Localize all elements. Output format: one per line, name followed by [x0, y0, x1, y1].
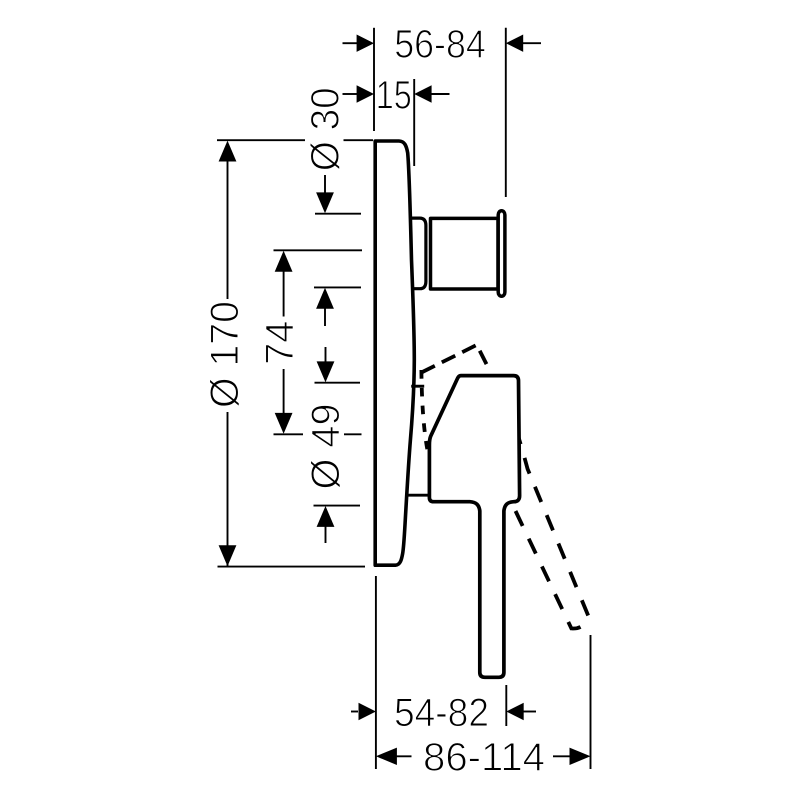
- dim Ø30 bottom extension line: [314, 286, 361, 288]
- svg-text:86-114: 86-114: [423, 736, 545, 780]
- lever handle alternate position (dashed) shaft outline: [512, 429, 588, 629]
- stem cylinder: [431, 218, 499, 289]
- dim 15 left arrow: [343, 93, 359, 95]
- dim Ø49 arrows: [325, 347, 327, 366]
- dim 74 top extension line: [274, 249, 363, 251]
- dim 86-114 right extension line: [590, 635, 592, 769]
- lever handle alternate position (dashed) top edges: [421, 345, 489, 373]
- lever handle with shaft (solid): [429, 376, 519, 678]
- dim Ø170 dimension line with arrows: [219, 141, 237, 162]
- dim Ø30 top extension line: [315, 213, 361, 215]
- dim 56-84 left extension line: [373, 28, 375, 131]
- svg-text:74: 74: [258, 321, 302, 365]
- svg-text:Ø 170: Ø 170: [203, 301, 247, 408]
- dim 56-84 right extension line: [505, 28, 507, 197]
- escutcheon plate (side view): [375, 141, 414, 565]
- dim 56-84 right arrow: [522, 42, 541, 44]
- dim 15 right arrow: [430, 93, 450, 95]
- svg-text:56-84: 56-84: [394, 23, 486, 67]
- dim Ø170 top extension line: [217, 139, 305, 141]
- dim Ø170 bottom extension line: [218, 566, 366, 568]
- svg-text:Ø 49: Ø 49: [304, 404, 348, 490]
- svg-text:54-82: 54-82: [394, 691, 489, 735]
- dim Ø49 top extension line: [315, 382, 361, 384]
- svg-text:Ø 30: Ø 30: [304, 87, 348, 171]
- dim Ø30 arrows: [324, 175, 326, 195]
- collar sleeve behind handle (Ø49) top edge: [411, 385, 424, 388]
- dim 54-82 left arrow: [351, 711, 358, 713]
- collar sleeve behind handle (Ø49) bottom edge: [408, 494, 429, 497]
- dim 86-114 right arrow: [553, 755, 571, 757]
- svg-text:15: 15: [376, 73, 412, 117]
- dim 54-82 left extension line: [375, 576, 377, 769]
- lever handle alternate position (dashed) left edge: [421, 370, 427, 449]
- dim 74 dimension line with arrows: [275, 251, 293, 272]
- dim Ø49 bottom extension line: [314, 505, 361, 507]
- dim 15 right extension line: [413, 79, 415, 166]
- stem collar at plate: [411, 218, 426, 289]
- dim 54-82 right extension line: [505, 685, 507, 726]
- dim 56-84 left arrow: [343, 42, 359, 44]
- dim 74 bottom extension line: [274, 433, 304, 435]
- dim 54-82 right arrow: [523, 711, 536, 713]
- stem end flange: [498, 211, 505, 297]
- dim 86-114 left arrow: [394, 755, 412, 757]
